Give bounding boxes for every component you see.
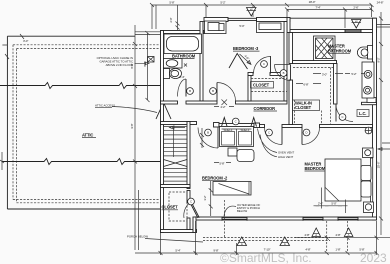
masterbath left wall upper xyxy=(289,33,293,64)
svg-text:3'-2": 3'-2" xyxy=(203,195,207,200)
svg-text:5'-0": 5'-0" xyxy=(331,201,336,205)
svg-text:BATHROOM: BATHROOM xyxy=(172,54,196,59)
porch dashed outline xyxy=(203,237,330,239)
svg-text:A: A xyxy=(315,233,317,237)
stair break X xyxy=(164,160,188,167)
bed mattress xyxy=(325,159,361,201)
dim line left of bathroom xyxy=(146,31,150,102)
svg-text:C: C xyxy=(341,115,343,119)
bathroom door swing arc xyxy=(178,79,187,97)
window masterbed bottom left xyxy=(303,217,323,221)
corridor bottom wall over stairwell xyxy=(161,122,197,125)
svg-text:C: C xyxy=(268,131,270,135)
svg-text:4'-8": 4'-8" xyxy=(304,233,309,237)
svg-text:9'-8": 9'-8" xyxy=(213,248,218,252)
attic roof dashed outline outer xyxy=(13,44,160,46)
closet door arc xyxy=(184,203,190,219)
svg-text:2'-6": 2'-6" xyxy=(353,5,358,9)
attic left small dim ticks xyxy=(0,34,24,170)
ceiling light right xyxy=(365,127,372,134)
masterbath top exterior wall xyxy=(290,30,377,33)
bottom wall left section xyxy=(161,230,197,233)
top wall step connector xyxy=(287,18,290,33)
right exterior wall xyxy=(373,18,377,220)
svg-text:SHELF: SHELF xyxy=(240,128,249,132)
corridor top wall under bathroom xyxy=(161,101,178,104)
bedroom3 right wall xyxy=(284,22,287,102)
bedroom2 entry door leaf xyxy=(217,128,219,149)
svg-text:ATTIC: ATTIC xyxy=(82,133,93,138)
bathroom door tag xyxy=(187,88,194,95)
svg-text:A: A xyxy=(241,242,243,246)
svg-text:4'-8": 4'-8" xyxy=(335,233,340,237)
bedroom3 swing mark xyxy=(229,54,248,70)
bedroom3 top exterior wall right part xyxy=(257,18,291,22)
attic break line upper with zigzags xyxy=(0,83,161,89)
corridor bottom wall between swing doors xyxy=(282,125,302,128)
attic outer wall top xyxy=(7,35,135,37)
right dim extension xyxy=(377,25,390,28)
window center dashed extension xyxy=(224,200,226,237)
closet room door leaf xyxy=(270,56,272,74)
svg-text:C: C xyxy=(190,200,192,204)
walkin shelf dashed xyxy=(293,67,333,69)
bathroom toilet bowl xyxy=(170,69,182,79)
closet nook right wall upper xyxy=(187,191,190,203)
LC top wall stub xyxy=(362,102,377,104)
svg-text:A: A xyxy=(284,242,286,246)
closet room door tag xyxy=(261,61,268,68)
top dim line tier2 xyxy=(287,9,372,11)
masterbath toilet tank xyxy=(368,46,373,60)
window tag triangle bottom3 xyxy=(312,228,321,237)
svg-text:5'-8": 5'-8" xyxy=(169,1,174,5)
stair treads xyxy=(164,127,188,182)
bedroom3 closet left xyxy=(205,21,227,34)
svg-text:CLOSET: CLOSET xyxy=(162,205,179,210)
attic outer wall bottom xyxy=(7,208,160,210)
window tag triangle top1 xyxy=(247,8,257,17)
shower X xyxy=(316,38,334,59)
L.C. label boxed xyxy=(357,110,369,117)
svg-text:5'-2": 5'-2" xyxy=(351,72,356,76)
inner dim line b1 xyxy=(295,237,390,239)
svg-text:2023: 2023 xyxy=(360,251,387,264)
svg-text:ATTIC ACCESS: ATTIC ACCESS xyxy=(95,104,115,108)
small dim ticks above bathroom xyxy=(176,5,180,30)
door X mark xyxy=(222,100,228,106)
walkin closet label boxed xyxy=(293,100,320,111)
svg-text:©SmartMLS, Inc.: ©SmartMLS, Inc. xyxy=(220,251,312,264)
svg-text:8'-6": 8'-6" xyxy=(130,63,134,68)
LC door leaf xyxy=(335,105,337,122)
closet door tag xyxy=(188,198,195,205)
closet door jamb right xyxy=(254,123,260,128)
main left exterior wall xyxy=(161,31,164,233)
corridor left swing door tag xyxy=(266,129,273,136)
LC door arc xyxy=(336,105,353,122)
svg-text:8'-6": 8'-6" xyxy=(143,61,147,66)
stair bottom landing wall xyxy=(161,185,191,188)
window tag triangle bottom2 xyxy=(280,237,290,246)
bedroom3 top exterior wall left part xyxy=(204,18,228,22)
vanity sink 1 xyxy=(364,70,372,78)
svg-text:CORRIDOR: CORRIDOR xyxy=(254,106,276,111)
svg-text:6'-8": 6'-8" xyxy=(303,83,308,87)
svg-text:5'-2": 5'-2" xyxy=(220,1,225,5)
closet door leaf diagonal xyxy=(190,202,199,218)
svg-text:3'-0": 3'-0" xyxy=(322,73,327,77)
closet room top wall xyxy=(248,73,253,76)
bottom dim line b2 xyxy=(135,252,377,254)
svg-text:9'-8": 9'-8" xyxy=(130,123,134,128)
bottom dim extension verticals xyxy=(139,190,377,255)
svg-text:2'-0": 2'-0" xyxy=(169,17,173,22)
svg-text:5'-0": 5'-0" xyxy=(239,24,244,28)
svg-text:24'-8": 24'-8" xyxy=(377,1,384,5)
bathroom door leaf xyxy=(185,79,187,97)
svg-text:15'-6": 15'-6" xyxy=(377,162,381,169)
svg-text:CLOSET: CLOSET xyxy=(295,105,312,110)
bathroom sink bowl xyxy=(166,60,178,67)
nightstand top xyxy=(363,148,374,158)
tier1 ticks xyxy=(150,3,374,7)
exterior roof line top right xyxy=(290,17,377,19)
window masterbed bottom right xyxy=(338,217,358,221)
svg-text:18'-0": 18'-0" xyxy=(309,0,316,4)
bed headboard xyxy=(371,158,373,202)
bedroom3 closet right xyxy=(257,22,285,33)
window masterbath top xyxy=(345,29,361,33)
hvac chase box xyxy=(148,57,155,63)
svg-text:A: A xyxy=(348,233,350,237)
tier1 extension verticals xyxy=(152,5,372,29)
porch note leader xyxy=(224,206,236,218)
vanity counter xyxy=(362,62,374,98)
svg-text:5'-4": 5'-4" xyxy=(175,249,180,253)
corridor bottom wall closet segment xyxy=(219,124,254,127)
dim ticks on x135 line xyxy=(133,42,137,164)
bathroom toilet tank xyxy=(164,69,170,79)
svg-text:ABOVE 2-ND FLOOR: ABOVE 2-ND FLOOR xyxy=(106,63,133,67)
masterbed swing door tag xyxy=(303,129,310,136)
bedroom2 entry door arc xyxy=(198,128,218,149)
hall closet pivot door marks xyxy=(222,118,257,127)
svg-text:B: B xyxy=(207,131,209,135)
svg-text:1'-8": 1'-8" xyxy=(335,248,340,252)
LC door tag xyxy=(339,114,346,121)
svg-text:BEDROOM: BEDROOM xyxy=(305,166,326,171)
bedroom2 door tag xyxy=(205,129,212,136)
window bedroom2 bottom xyxy=(222,217,247,221)
CLOSET label boxed xyxy=(251,82,274,89)
corridor top wall between doors xyxy=(186,101,217,104)
svg-text:L.C.: L.C. xyxy=(359,111,366,116)
window tag triangle bottom1 xyxy=(237,237,247,246)
svg-text:D: D xyxy=(305,131,307,135)
closet shelf dashed xyxy=(251,78,287,80)
closet room door arc xyxy=(254,57,271,74)
svg-text:BATHROOM: BATHROOM xyxy=(328,48,352,53)
bottom wall step connector xyxy=(193,217,196,233)
svg-text:4'-2": 4'-2" xyxy=(220,105,225,109)
svg-text:5'-8": 5'-8" xyxy=(219,162,224,166)
window bedroom3 top xyxy=(228,18,257,22)
svg-text:C: C xyxy=(263,62,265,66)
hall closet box below corridor wall xyxy=(220,127,254,147)
hall closet tag xyxy=(232,118,239,125)
masterbath left wall lower / walkin left wall xyxy=(289,80,293,125)
shower stall outer xyxy=(314,36,336,61)
right dim vertical line xyxy=(380,12,382,235)
closet room left wall xyxy=(248,76,251,102)
svg-text:3'-0": 3'-0" xyxy=(23,39,28,43)
masterbed swing door leaf xyxy=(301,128,303,145)
svg-text:2'-6": 2'-6" xyxy=(318,201,323,205)
svg-text:7'-4": 7'-4" xyxy=(315,5,320,9)
corridor bottom wall segment before left swing door xyxy=(260,125,265,128)
bedroom3 door tag xyxy=(210,88,217,95)
bedroom3 bottom wall right of door xyxy=(236,101,288,104)
dim ext below corridor xyxy=(200,128,204,148)
bedroom3 door leaf xyxy=(216,83,218,102)
bedroom2 vertical dim xyxy=(209,181,213,216)
bedroom2 dresser below closet xyxy=(228,148,237,156)
svg-text:B: B xyxy=(189,89,191,93)
svg-text:W: W xyxy=(250,7,253,11)
attic break line lower with zigzags xyxy=(2,159,161,165)
svg-text:9'-2": 9'-2" xyxy=(377,57,381,62)
masterbath door leaf xyxy=(290,65,292,81)
bedroom2 door jamb xyxy=(214,123,220,128)
svg-text:PORCH BELOW: PORCH BELOW xyxy=(127,235,148,239)
nightstand bottom xyxy=(364,202,374,213)
attic access hatch swing xyxy=(156,103,171,120)
svg-text:2'-4": 2'-4" xyxy=(179,75,184,79)
bed pillow top xyxy=(361,166,371,181)
vent leaders xyxy=(258,129,278,157)
bed pillow bottom xyxy=(361,181,371,197)
closet under stairs dashed box xyxy=(169,192,187,221)
attic access leader curve xyxy=(112,107,157,113)
masterbed swing door arc xyxy=(302,128,320,145)
vertical extension line at attic right xyxy=(134,25,136,250)
svg-text:BELOW: BELOW xyxy=(237,209,247,213)
garage wall connector lines xyxy=(135,32,161,35)
top dim line tier1 xyxy=(152,4,372,6)
bathroom sink counter xyxy=(164,59,183,69)
window tag triangle top2 xyxy=(352,20,362,29)
svg-text:B: B xyxy=(283,71,285,75)
closet nook right wall lower xyxy=(187,218,190,230)
LC corner shelf xyxy=(367,98,376,103)
master bedroom top wall right segment xyxy=(320,125,373,128)
svg-text:HIGH VENT: HIGH VENT xyxy=(278,155,294,159)
attic outer wall left xyxy=(6,36,8,209)
masterbath toilet bowl xyxy=(357,47,367,58)
hvac note leader arrow xyxy=(135,62,150,65)
masterbath door tag xyxy=(280,70,287,77)
corridor left swing door leaf xyxy=(281,128,283,145)
svg-text:B: B xyxy=(212,89,214,93)
attic roof dashed outline inner xyxy=(17,48,161,50)
svg-text:SHELF: SHELF xyxy=(223,128,232,132)
stair direction arrow xyxy=(170,126,186,157)
stair right wall xyxy=(187,122,190,189)
masterbath door arc xyxy=(275,65,291,81)
bedroom2 furniture box xyxy=(213,182,251,196)
bathroom right wall / bedroom3 left wall xyxy=(200,22,203,102)
bottom exterior wall right section xyxy=(195,217,377,220)
window tag triangle bottom4 xyxy=(344,228,353,237)
vanity sink 2 xyxy=(364,86,372,94)
porch leader xyxy=(145,239,203,243)
bathtub outer xyxy=(164,34,202,54)
dim line into room xyxy=(314,188,348,214)
bed foot fold xyxy=(325,187,339,201)
svg-text:BEDROOM -2: BEDROOM -2 xyxy=(202,176,228,181)
bedroom3 door arc xyxy=(217,83,236,102)
svg-text:BEDROOM -3: BEDROOM -3 xyxy=(233,46,259,51)
corridor left swing door arc xyxy=(265,128,283,145)
right side leader notes xyxy=(378,143,390,150)
svg-text:C: C xyxy=(235,120,237,124)
tier2 extension verticals xyxy=(287,10,345,29)
bathtub inner xyxy=(167,37,199,52)
walkin right wall xyxy=(334,64,338,105)
walkin top wall xyxy=(293,61,337,64)
bathroom top wall xyxy=(161,31,205,34)
svg-text:CLOSET: CLOSET xyxy=(253,83,270,88)
svg-text:W: W xyxy=(355,19,358,23)
